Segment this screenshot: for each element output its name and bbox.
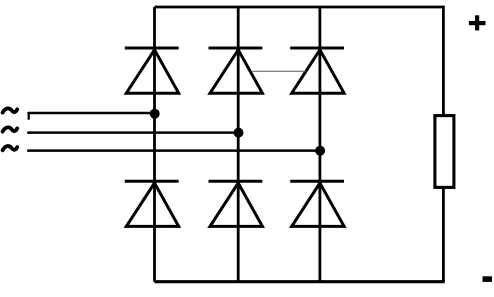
wire: phase-1 branch vertical through D1/D2 <box>153 7 156 282</box>
wire: thin stray link between D3 and D5 triangles <box>253 70 307 72</box>
node: junction phase 1 <box>150 109 160 119</box>
diode D2 (bottom, phase 1) <box>125 181 179 226</box>
node: junction phase 2 <box>234 128 244 138</box>
diode D6 (bottom, phase 3) <box>290 181 344 226</box>
wire: top bus from node of D1/D3/D5 cathodes to + rail <box>155 6 444 9</box>
label: - terminal <box>483 276 493 282</box>
wire: right vertical from top bus down to load resistor <box>442 6 445 115</box>
wire: AC phase 2 input line <box>28 131 238 134</box>
label: AC tilde phase 2 <box>3 127 18 131</box>
wire: phase-3 branch vertical through D5/D6 <box>318 7 321 282</box>
label: + terminal <box>469 15 486 30</box>
wire: AC phase 1 input line <box>29 112 156 115</box>
wire: bottom bus from D2/D4/D6 anodes to - rail <box>155 280 445 283</box>
resistor R1 (load) <box>435 116 454 188</box>
wire: right vertical from load resistor down to bottom bus <box>442 188 445 282</box>
wire: phase-2 branch vertical through D3/D4 <box>237 7 240 282</box>
diode D3 (top, phase 2) <box>209 48 263 93</box>
diode D1 (top, phase 1) <box>125 48 179 93</box>
diode D5 (top, phase 3) <box>290 48 344 93</box>
wire: AC phase 3 input line <box>28 149 320 152</box>
node: junction phase 3 <box>315 146 325 156</box>
label: AC tilde phase 1 <box>3 108 18 112</box>
wire: small tick at phase-1 line start <box>28 113 30 119</box>
label: AC tilde phase 3 <box>3 146 18 150</box>
diode D4 (bottom, phase 2) <box>209 181 263 226</box>
